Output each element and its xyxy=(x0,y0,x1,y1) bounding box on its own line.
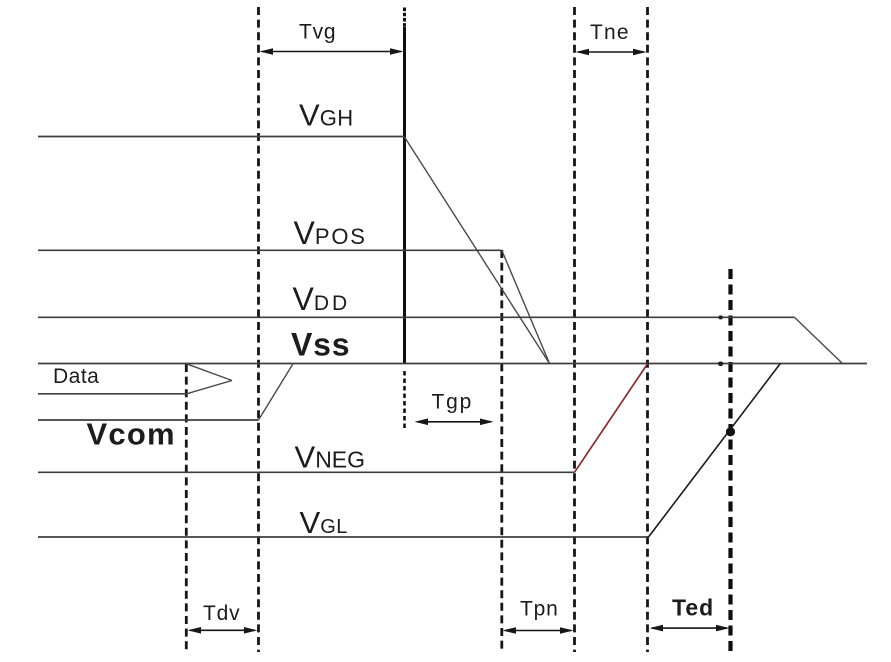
svg-text:Tne: Tne xyxy=(590,21,630,44)
wire VPOS falling ramp xyxy=(502,250,550,363)
svg-text:Ted: Ted xyxy=(672,595,714,621)
svg-text:Tvg: Tvg xyxy=(299,21,336,44)
svg-text:Data: Data xyxy=(53,365,99,388)
marker T7 thick dashed vertical (Ted right) xyxy=(728,269,732,652)
dimension arrow Tpn xyxy=(503,627,574,634)
marker T4 dashed vertical (Tgp right / Tpn left) xyxy=(500,250,503,652)
wire VDD high level xyxy=(38,316,794,318)
wire VDD falling ramp xyxy=(794,317,842,363)
svg-text:Tdv: Tdv xyxy=(203,602,240,625)
wire Vcom rising ramp xyxy=(259,364,294,420)
wire Vcom level xyxy=(38,419,259,421)
marker T3 dotted continuation below Vss xyxy=(403,371,406,430)
marker T5 dashed vertical (Tne left / Tpn right) xyxy=(573,7,576,652)
node tick on VSS at Ted line xyxy=(718,362,723,367)
marker T1 dashed vertical (Tdv left) xyxy=(185,364,188,652)
marker T2 dashed vertical (Tvg left / Tdv right) xyxy=(257,7,260,652)
dimension arrow Tvg xyxy=(260,48,404,55)
marker T3 solid vertical (Tvg right / gate edge) xyxy=(403,8,406,28)
wire VGL rising ramp xyxy=(649,364,781,538)
wire VSS baseline xyxy=(38,363,867,365)
svg-text:Tpn: Tpn xyxy=(520,598,559,621)
wire Data low level xyxy=(38,393,187,395)
wire VGL low level xyxy=(38,536,649,538)
wire VPOS high level xyxy=(38,249,502,251)
node dot on VGL ramp at Ted line xyxy=(726,427,735,436)
dimension arrow Tne xyxy=(576,49,647,56)
wire Data transition lower edge xyxy=(187,381,233,394)
dimension arrow Ted xyxy=(650,625,730,632)
wire VGH high level xyxy=(38,136,405,138)
wire Data transition upper edge xyxy=(187,364,233,381)
wire VNEG rising ramp (red) xyxy=(575,364,648,473)
svg-text:Vss: Vss xyxy=(291,326,350,362)
svg-text:Vcom: Vcom xyxy=(87,417,176,452)
dimension arrow Tdv xyxy=(188,627,258,634)
marker T6 dashed vertical (Tne right / Ted left) xyxy=(646,7,649,652)
wire VGH falling ramp xyxy=(405,137,550,364)
node tick on VDD at Ted line xyxy=(718,315,723,319)
svg-text:Tgp: Tgp xyxy=(432,391,474,414)
wire VNEG low level xyxy=(38,471,575,473)
dimension arrow Tgp xyxy=(415,419,494,426)
